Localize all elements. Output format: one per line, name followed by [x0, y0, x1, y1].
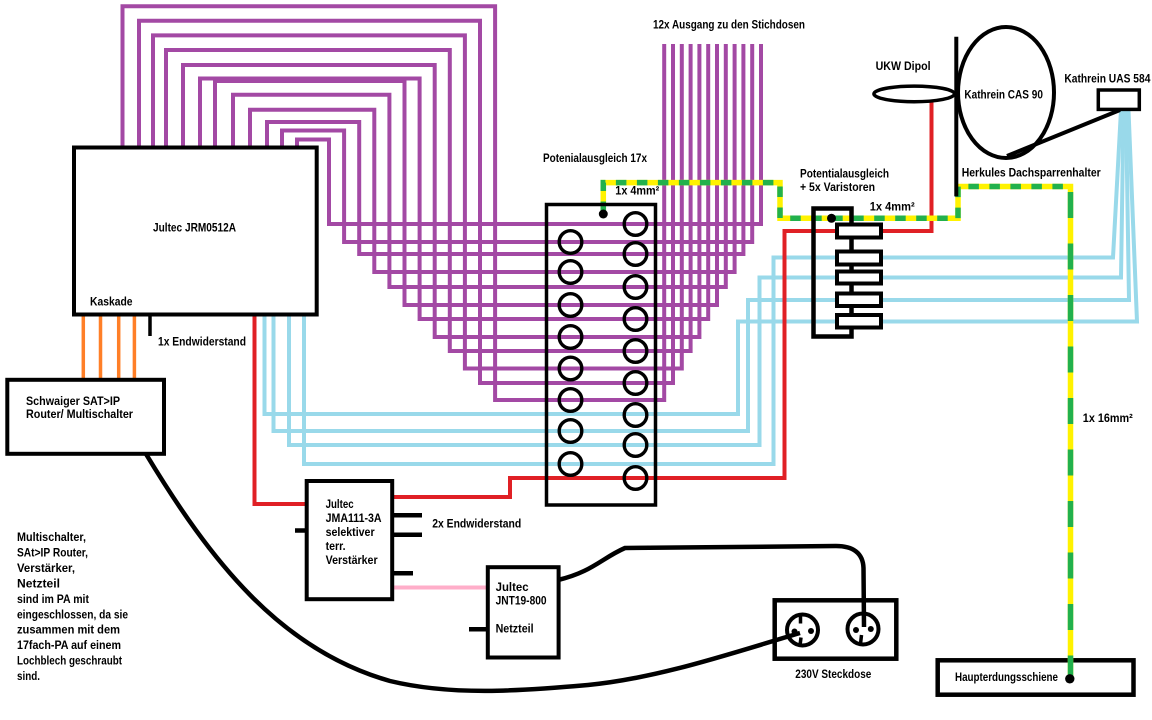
- wire sat-output 11 (purple): [139, 21, 673, 383]
- svg-text:230V Steckdose: 230V Steckdose: [795, 667, 871, 681]
- node earth connection dot on PA block: [599, 210, 608, 219]
- LNB arm: [1007, 110, 1120, 156]
- multiswitch U1 Jultec JRM0512A: [74, 148, 317, 315]
- PA feed-through circle L4: [559, 326, 582, 349]
- varistor V2: [837, 252, 881, 265]
- wire kaskade 1 (orange) Jultec to Schwaiger: [82, 315, 86, 380]
- svg-text:Potenialausgleich 17x: Potenialausgleich 17x: [543, 151, 647, 165]
- svg-text:SAt>IP Router,: SAt>IP Router,: [17, 545, 88, 559]
- wire kaskade 2 (orange) Jultec to Schwaiger: [99, 315, 103, 380]
- socket 230V Steckdose outlet box: [775, 600, 897, 658]
- terminator stub 1x Endwiderstand: [148, 315, 152, 336]
- varistor V5: [837, 315, 881, 328]
- PA feed-through circle R8: [624, 434, 647, 457]
- svg-text:Netzteil: Netzteil: [17, 576, 60, 590]
- svg-text:zusammen mit dem: zusammen mit dem: [17, 623, 120, 637]
- svg-text:Schwaiger SAT>IP: Schwaiger SAT>IP: [26, 394, 120, 408]
- wire earth 1x16mm2 (green/yellow) mast down to main earth rail: [1068, 187, 1074, 679]
- PA feed-through circle R7: [624, 404, 647, 427]
- wire sat-output 3 (purple): [267, 44, 743, 254]
- stub JMA lower right port: [392, 571, 413, 576]
- PA feed-through circle L8: [559, 453, 582, 476]
- svg-text:Haupterdungsschiene: Haupterdungsschiene: [955, 670, 1058, 684]
- wire sat-output 9 (purple): [166, 44, 691, 351]
- wire sat-output 2 (purple): [282, 44, 752, 242]
- wire kaskade 3 (orange) Jultec to Schwaiger: [117, 315, 121, 380]
- varistor V4: [837, 294, 881, 307]
- wire sat trunk (red) JMA amp via PA block and varistor to UKW dipole: [392, 99, 932, 497]
- wire sat-output 1 (purple): [297, 44, 761, 224]
- svg-text:Jultec: Jultec: [326, 497, 354, 511]
- svg-text:sind.: sind.: [17, 669, 40, 683]
- svg-text:Router/ Multischalter: Router/ Multischalter: [26, 407, 133, 421]
- PA feed-through circle L7: [559, 420, 582, 443]
- svg-text:+ 5x Varistoren: + 5x Varistoren: [800, 180, 875, 194]
- svg-text:Kathrein UAS 584: Kathrein UAS 584: [1064, 72, 1150, 86]
- wire sat-output 10 (purple): [153, 35, 682, 368]
- wire 230V cord Schwaiger to left socket (black): [146, 454, 800, 691]
- node earth dot in rail: [1065, 674, 1074, 683]
- amplifier U4 Jultec JMA111-3A selektiver terr. Verstärker: [307, 481, 393, 599]
- svg-text:12x Ausgang zu den Stichdosen: 12x Ausgang zu den Stichdosen: [653, 18, 805, 32]
- stub JMA left port: [295, 528, 307, 533]
- wire sat-output 4 (purple): [250, 44, 735, 272]
- router U2 Schwaiger SAT>IP Router/Multischalter: [7, 380, 164, 454]
- svg-text:selektiver: selektiver: [326, 525, 375, 539]
- PA feed-through circle R2: [624, 243, 647, 266]
- svg-text:Kaskade: Kaskade: [90, 295, 133, 309]
- PA feed-through circle R3: [624, 276, 647, 299]
- PA feed-through circle R5: [624, 340, 647, 363]
- svg-text:Kathrein CAS 90: Kathrein CAS 90: [964, 88, 1043, 102]
- wire 230V cord JNT power unit to right socket (black): [558, 546, 864, 627]
- svg-text:eingeschlossen, da sie: eingeschlossen, da sie: [17, 607, 128, 621]
- socket outlet right: [848, 614, 879, 645]
- wire pink supply JMA amp to JNT power unit: [392, 586, 488, 590]
- svg-text:Jultec: Jultec: [496, 580, 529, 594]
- mast Herkules Dachsparrenhalter pole: [954, 37, 958, 197]
- svg-text:2x Endwiderstand: 2x Endwiderstand: [432, 517, 521, 531]
- varistor V1: [837, 225, 881, 238]
- PA feed-through circle R9: [624, 467, 647, 490]
- wire sat-output 12 (purple): [123, 6, 665, 400]
- PA feed-through circle L1: [559, 231, 582, 254]
- dish antenna Kathrein CAS 90: [958, 27, 1054, 158]
- socket outlet left: [787, 615, 818, 646]
- svg-text:Jultec JRM0512A: Jultec JRM0512A: [153, 221, 236, 235]
- svg-text:Verstärker: Verstärker: [326, 553, 378, 567]
- PA feed-through circle L2: [559, 261, 582, 284]
- svg-text:Potentialausgleich: Potentialausgleich: [800, 167, 889, 181]
- PA feed-through circle L3: [559, 294, 582, 317]
- svg-text:Verstärker,: Verstärker,: [17, 561, 75, 575]
- svg-text:1x Endwiderstand: 1x Endwiderstand: [158, 335, 246, 349]
- wire sat-output 6 (purple): [215, 44, 717, 305]
- svg-text:JNT19-800: JNT19-800: [496, 594, 547, 608]
- wire terrestrial coax 3 (light blue): [289, 110, 1124, 445]
- PA feed-through circle L6: [559, 389, 582, 412]
- stub JNT left port: [469, 627, 488, 632]
- wire terrestrial coax 2 (light blue): [274, 110, 1130, 431]
- wire sat-output 7 (purple): [200, 44, 708, 319]
- wire sat trunk (red) Jultec to JMA amp: [255, 315, 308, 504]
- svg-text:Lochblech geschraubt: Lochblech geschraubt: [17, 654, 122, 668]
- varistor block bus bar: [814, 209, 852, 337]
- svg-text:Herkules Dachsparrenhalter: Herkules Dachsparrenhalter: [962, 166, 1101, 180]
- svg-text:terr.: terr.: [326, 539, 346, 553]
- svg-text:1x 4mm²: 1x 4mm²: [870, 200, 915, 214]
- PA feed-through circle R6: [624, 372, 647, 395]
- svg-text:sind im PA mit: sind im PA mit: [17, 592, 89, 606]
- wire terrestrial coax 1 (light blue): [265, 110, 1138, 414]
- wire sat-output 8 (purple): [183, 44, 699, 337]
- svg-text:17fach-PA auf einem: 17fach-PA auf einem: [17, 638, 121, 652]
- wire kaskade 4 (orange) Jultec to Schwaiger: [133, 315, 137, 380]
- PA feed-through circle R1: [624, 213, 647, 236]
- earth rail Haupterdungsschiene box: [938, 660, 1134, 694]
- svg-text:Multischalter,: Multischalter,: [17, 530, 86, 544]
- svg-text:JMA111-3A: JMA111-3A: [326, 511, 382, 525]
- wire terrestrial coax 4 (light blue): [304, 110, 1121, 464]
- terminator stubs 2x Endwiderstand on JMA: [392, 513, 422, 518]
- svg-text:1x 4mm²: 1x 4mm²: [615, 184, 659, 198]
- PA feed-through circle R4: [624, 308, 647, 331]
- svg-text:1x 16mm²: 1x 16mm²: [1083, 411, 1133, 425]
- varistor V3: [837, 272, 881, 284]
- wire sat-output 5 (purple): [233, 44, 726, 287]
- svg-text:UKW Dipol: UKW Dipol: [876, 59, 931, 73]
- PA feed-through circle L5: [559, 357, 582, 380]
- node earth dot on varistor bonding wire: [827, 214, 836, 223]
- wire earth bonding 1x4mm2 (green/yellow) PA block to mast, varistor branch: [603, 183, 1070, 678]
- power supply U5 Jultec JNT19-800 Netzteil: [488, 567, 559, 657]
- svg-text:Netzteil: Netzteil: [496, 622, 534, 636]
